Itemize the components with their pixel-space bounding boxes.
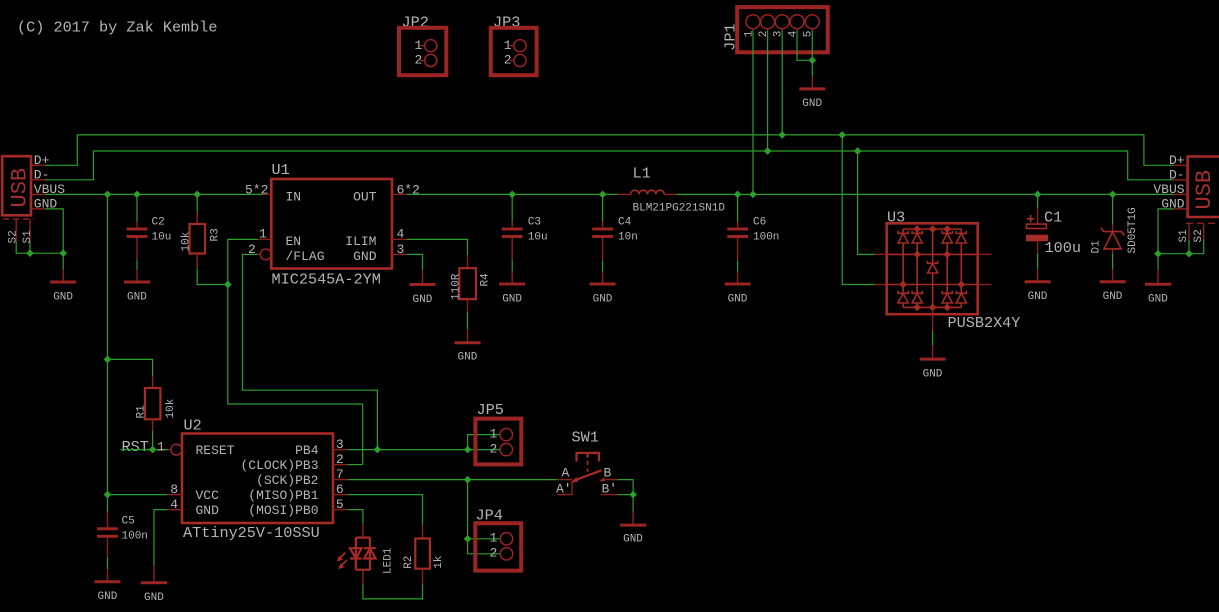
svg-text:2: 2	[415, 53, 423, 68]
connector JP5	[475, 401, 521, 465]
wire U1 ILIM to R4	[407, 239, 468, 255]
junction JP4 pin1	[464, 535, 472, 543]
svg-text:1: 1	[157, 440, 165, 455]
junction R3	[193, 191, 201, 199]
wire D+ rail (top)	[45, 135, 1173, 165]
junction JP1 pin2 on D- rail	[764, 147, 772, 155]
ground SW1	[620, 513, 646, 546]
svg-text:C3: C3	[528, 217, 541, 229]
pin GND right	[1173, 208, 1187, 210]
wire 5V rail right segment	[407, 193, 1173, 195]
svg-text:PUSB2X4Y: PUSB2X4Y	[948, 314, 1021, 332]
svg-text:GND: GND	[413, 294, 433, 306]
junction C1	[1034, 191, 1042, 199]
U2 pin 1 RESET bubble	[171, 444, 182, 455]
junction VBUS left rail drop	[104, 191, 112, 199]
svg-text:GND: GND	[593, 293, 613, 305]
svg-text:2: 2	[504, 53, 512, 68]
pin D+ left	[31, 164, 45, 166]
pin D- left	[31, 179, 45, 181]
svg-text:PB4: PB4	[295, 443, 319, 458]
pin VBUS left	[31, 193, 45, 195]
svg-text:ATtiny25V-10SSU: ATtiny25V-10SSU	[183, 524, 320, 542]
svg-text:EN: EN	[286, 234, 302, 249]
U1 pin 4 ILIM	[392, 238, 407, 240]
ground C5	[95, 569, 121, 603]
led LED1	[337, 524, 395, 585]
junction U3 upper on D+ rail	[838, 131, 846, 139]
svg-text:3: 3	[336, 437, 344, 452]
svg-text:1: 1	[259, 227, 267, 242]
shield dashed line right	[1186, 222, 1219, 224]
svg-text:GND: GND	[923, 368, 943, 380]
svg-text:GND: GND	[458, 352, 478, 364]
svg-text:JP5: JP5	[477, 401, 504, 419]
ground C3	[499, 272, 525, 306]
junction SW1 B'	[629, 491, 637, 499]
wire U2 pin4 to gnd	[154, 510, 167, 566]
ground U1 pin3	[410, 270, 436, 306]
svg-text:10u: 10u	[528, 232, 548, 244]
svg-text:1: 1	[490, 531, 498, 546]
wire VBUS left rail down	[107, 194, 109, 512]
LED1 left diode (down)	[350, 548, 362, 558]
capacitor C2	[127, 194, 172, 269]
switch SW1	[556, 429, 618, 497]
pin S1 left	[29, 219, 31, 242]
junction C2	[133, 191, 141, 199]
pin S2 right	[1203, 223, 1205, 239]
U3 diode column 3	[942, 225, 952, 311]
U3 top bus	[903, 228, 961, 230]
junction JP5	[464, 446, 472, 454]
svg-text:GND: GND	[728, 293, 748, 305]
U2 pin 4 GND	[167, 509, 182, 511]
SW1 pin B	[601, 479, 618, 481]
svg-text:ILIM: ILIM	[345, 234, 376, 249]
wire U1 EN to PB3	[228, 239, 363, 464]
pin GND left	[31, 208, 45, 210]
wire SW1 B to gnd	[618, 480, 634, 513]
pin VBUS right	[1173, 193, 1187, 195]
svg-text:RST: RST	[122, 438, 149, 456]
wire U3 gnd	[932, 331, 934, 346]
svg-text:2: 2	[336, 452, 344, 467]
svg-text:C6: C6	[753, 217, 766, 229]
svg-text:U1: U1	[272, 161, 290, 179]
svg-text:(SCK)PB2: (SCK)PB2	[256, 473, 318, 488]
U1 pin IN stub	[263, 193, 272, 195]
svg-text:4: 4	[397, 227, 405, 242]
wire right USB shield	[1158, 239, 1204, 253]
U2 pin 5 PB0	[333, 509, 348, 511]
junction left S1	[26, 249, 34, 257]
junction PB2-JP4	[464, 476, 472, 484]
svg-text:10k: 10k	[180, 231, 192, 251]
U2 pin 2 PB3	[333, 464, 348, 466]
svg-text:S2: S2	[7, 230, 19, 243]
svg-text:100n: 100n	[753, 232, 779, 244]
SW1 contact B arrow	[599, 477, 605, 481]
SW1 lever	[573, 470, 602, 481]
wire left USB shield to gnd	[16, 242, 63, 254]
svg-text:GND: GND	[1028, 291, 1048, 303]
resistor R3 10k	[180, 194, 221, 268]
U2 pin 3 PB4	[333, 449, 348, 451]
wire left USB GND pin down	[45, 209, 63, 270]
U3 center zener column	[928, 225, 938, 311]
junction C3	[508, 191, 516, 199]
wire JP4 pin1 branch	[468, 538, 501, 540]
resistor R2 1k	[403, 524, 445, 585]
svg-text:GND: GND	[144, 592, 164, 604]
svg-text:C5: C5	[122, 516, 135, 528]
wire U1 /FLAG to PB4	[243, 254, 378, 449]
svg-text:110R: 110R	[450, 273, 462, 300]
wire D+ rail to U3 lower pin	[842, 135, 874, 285]
svg-text:B': B'	[602, 481, 618, 496]
wire RST to U2 pin1	[120, 449, 168, 451]
diode D1 SD05T1G zener	[1091, 194, 1139, 269]
svg-text:10n: 10n	[618, 232, 638, 244]
U1 pin 1 EN	[257, 238, 271, 240]
wire PB4 net	[348, 449, 500, 451]
svg-text:USB: USB	[8, 168, 33, 208]
JP1 pin stubs	[752, 29, 754, 31]
U3 diode column 4	[956, 229, 966, 307]
svg-text:C4: C4	[618, 217, 632, 229]
pin S1 right	[1188, 223, 1190, 239]
SW1 pin B'	[601, 494, 618, 496]
svg-text:4: 4	[170, 497, 178, 512]
svg-text:3: 3	[397, 242, 405, 257]
LED1 emission arrows	[339, 553, 346, 560]
junction left usb gnd	[59, 249, 67, 257]
svg-text:R1: R1	[136, 405, 148, 419]
capacitor C6	[727, 194, 779, 271]
svg-text:100u: 100u	[1045, 239, 1081, 257]
svg-text:GND: GND	[127, 291, 147, 303]
junction JP1 pin3 on D+ rail	[778, 131, 786, 139]
svg-text:(MISO)PB1: (MISO)PB1	[248, 488, 318, 503]
svg-text:8: 8	[170, 482, 178, 497]
pin D- right	[1173, 179, 1187, 181]
wire R1 to RST node	[152, 431, 154, 450]
wire to R1	[108, 359, 153, 376]
svg-text:6: 6	[336, 482, 344, 497]
ground U2 pin4	[141, 566, 167, 605]
U3 diode column 1	[898, 229, 908, 307]
wire JP1 pin4 to gnd junction	[797, 31, 812, 61]
U2 pin 6 PB1	[333, 494, 348, 496]
svg-text:GND: GND	[1148, 294, 1168, 306]
svg-text:GND: GND	[502, 293, 522, 305]
shield dashed line left	[3, 218, 34, 220]
svg-text:10k: 10k	[165, 398, 177, 418]
pin S2 left	[15, 219, 17, 242]
svg-text:S1: S1	[1178, 229, 1190, 243]
capacitor C1 100u polarized	[1026, 194, 1081, 269]
ground C6	[725, 272, 751, 306]
svg-text:RESET: RESET	[196, 443, 235, 458]
junction U3 lower on D- rail	[854, 147, 862, 155]
junction VCC branch	[104, 491, 112, 499]
U1 pin OUT stub	[392, 193, 407, 195]
svg-text:2: 2	[758, 31, 770, 38]
ground R4	[455, 330, 481, 364]
U3 diode column 2	[912, 225, 922, 311]
connector JP3	[491, 14, 537, 76]
ground U3	[920, 346, 946, 381]
junction JP1 gnd	[808, 56, 816, 64]
capacitor C3	[502, 194, 548, 271]
U3 gnd pin down	[932, 307, 934, 330]
ground C1	[1025, 269, 1051, 303]
capacitor C4	[592, 194, 638, 271]
ground right USB	[1145, 270, 1171, 306]
wire JP5 pin1 branch	[468, 435, 500, 450]
wire PB0 to LED1	[348, 510, 363, 524]
svg-text:R4: R4	[480, 273, 492, 287]
svg-text:OUT: OUT	[353, 189, 377, 204]
junction JP1 pin1 on VBUS	[749, 191, 757, 199]
wire R4 to gnd	[467, 312, 469, 330]
junction FLAG-PB4	[374, 446, 382, 454]
junction R1 branch	[104, 356, 112, 364]
svg-text:IN: IN	[286, 189, 302, 204]
wire D- rail to U3 upper pin	[858, 151, 875, 254]
wire PB2 net to SW1	[348, 479, 557, 481]
U1 pin 2 /FLAG bubble	[260, 249, 271, 260]
svg-text:1: 1	[415, 38, 423, 53]
svg-text:LED1: LED1	[383, 547, 395, 574]
svg-text:5: 5	[336, 497, 344, 512]
wire R3 bottom to EN junction	[197, 269, 228, 285]
U1 pin 3 GND	[392, 253, 407, 255]
wire VBUS rail left segment	[45, 193, 263, 195]
wire PB1 to R2	[348, 495, 423, 524]
svg-text:VBUS: VBUS	[1153, 182, 1184, 197]
svg-text:1: 1	[504, 38, 512, 53]
svg-text:1: 1	[490, 426, 498, 441]
wire VCC to U2 pin8	[108, 494, 168, 496]
junction right S1	[1185, 250, 1193, 258]
svg-text:R2: R2	[403, 556, 415, 569]
svg-text:USB: USB	[1192, 170, 1217, 210]
junction right usb gnd	[1154, 250, 1162, 258]
wire LED1 to R2 bottom loop	[363, 584, 423, 599]
ground left USB	[50, 270, 76, 304]
svg-text:MIC2545A-2YM: MIC2545A-2YM	[272, 271, 381, 289]
svg-text:GND: GND	[1103, 291, 1123, 303]
svg-text:D-: D-	[1169, 168, 1185, 183]
svg-text:R3: R3	[210, 228, 222, 241]
svg-text:GND: GND	[196, 503, 220, 518]
svg-text:2: 2	[490, 546, 498, 561]
capacitor C5	[97, 512, 148, 569]
svg-text:100n: 100n	[122, 531, 148, 543]
svg-text:U2: U2	[184, 417, 202, 435]
microcontroller U2 ATtiny25V	[157, 417, 348, 543]
ground below JP1	[799, 77, 825, 110]
svg-text:GND: GND	[53, 291, 73, 303]
op-amp U1 MIC2545A	[245, 161, 420, 289]
USB connector left (X1)	[2, 153, 65, 243]
U3 bottom bus	[903, 306, 961, 308]
svg-text:GND: GND	[98, 591, 118, 603]
svg-text:(CLOCK)PB3: (CLOCK)PB3	[240, 458, 318, 473]
wire PB3 net	[348, 464, 363, 466]
svg-text:A: A	[562, 466, 570, 481]
SW1 pin A	[557, 479, 572, 481]
junction EN node	[224, 281, 232, 289]
svg-text:5*2: 5*2	[245, 183, 268, 198]
inductor L1 BLM21PG221SN1D	[618, 165, 726, 215]
junction C4	[599, 191, 607, 199]
svg-text:2: 2	[490, 441, 498, 456]
wire JP1 pin2 to D- rail	[767, 31, 769, 152]
svg-text:S1: S1	[22, 230, 34, 244]
USB connector right (X2)	[1153, 153, 1219, 242]
connector JP4	[475, 507, 521, 571]
SW1 contact A arrow	[570, 477, 578, 483]
wire U1 pin3 to gnd	[407, 254, 423, 270]
svg-text:D1: D1	[1091, 240, 1103, 254]
svg-text:VCC: VCC	[196, 488, 220, 503]
svg-text:7: 7	[336, 467, 344, 482]
svg-text:L1: L1	[633, 165, 651, 183]
svg-text:10u: 10u	[152, 232, 172, 244]
junction D1	[1109, 191, 1117, 199]
wire JP1 pin3 to D+ rail	[781, 31, 783, 135]
connector JP2	[399, 14, 446, 76]
ground C4	[590, 272, 616, 306]
svg-text:A': A'	[556, 481, 572, 496]
svg-text:6*2: 6*2	[397, 183, 420, 198]
junction RST	[149, 446, 157, 454]
svg-text:GND: GND	[802, 98, 822, 110]
wire right USB gnd pin	[1158, 209, 1173, 270]
wire PB2 down to JP4	[468, 480, 501, 554]
pin D+ right	[1173, 164, 1187, 166]
wire JP1 pin5 down	[811, 31, 813, 77]
U2 pin 7 PB2	[333, 479, 348, 481]
svg-text:GND: GND	[623, 533, 643, 545]
LED1 right diode (up)	[364, 547, 376, 549]
svg-text:4: 4	[787, 30, 799, 37]
U3 lower signal line	[887, 284, 978, 286]
U3 upper signal line	[887, 253, 978, 255]
svg-text:D+: D+	[1169, 153, 1185, 168]
resistor R1 10k	[136, 377, 177, 432]
svg-text:1: 1	[743, 30, 755, 37]
SW1 pin A'	[557, 481, 572, 495]
svg-text:/FLAG: /FLAG	[286, 249, 325, 264]
svg-text:C2: C2	[152, 217, 165, 229]
diode array U3 PUSB2X4Y	[875, 209, 1021, 333]
svg-text:B: B	[604, 466, 612, 481]
U2 pin 8 VCC	[167, 494, 182, 496]
svg-text:1k: 1k	[433, 555, 445, 569]
resistor R4 110R	[450, 255, 491, 312]
connector JP1	[722, 7, 828, 52]
svg-text:(C) 2017 by Zak Kemble: (C) 2017 by Zak Kemble	[17, 19, 218, 37]
svg-text:SW1: SW1	[572, 429, 599, 447]
svg-text:BLM21PG221SN1D: BLM21PG221SN1D	[633, 203, 726, 215]
svg-text:5: 5	[803, 31, 815, 38]
LED1 arrowheads	[337, 556, 343, 562]
wire D- rail (second)	[45, 151, 1173, 180]
ground D1	[1100, 269, 1126, 303]
svg-text:SD05T1G: SD05T1G	[1127, 207, 1139, 253]
ground C2	[124, 270, 150, 304]
svg-text:(MOSI)PB0: (MOSI)PB0	[248, 503, 318, 518]
wire JP1 pin1 to VBUS rail	[752, 31, 754, 195]
svg-text:GND: GND	[353, 249, 377, 264]
junction C6	[734, 191, 742, 199]
